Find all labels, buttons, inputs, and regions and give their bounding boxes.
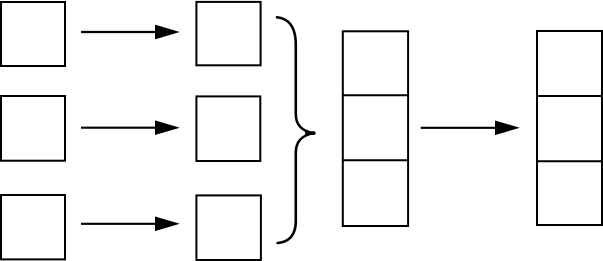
- input box row3 left: [1, 195, 65, 259]
- arrow row2: [81, 120, 180, 135]
- output box row2 middle column: [196, 96, 260, 161]
- stacked vector middle: [343, 31, 408, 226]
- input box row1 left: [1, 2, 65, 66]
- stacked vector right: [537, 31, 602, 225]
- curly brace: [277, 17, 314, 243]
- output box row3 middle column: [196, 195, 261, 260]
- arrow row1: [81, 25, 180, 40]
- arrow row3: [81, 216, 180, 231]
- output box row1 middle column: [196, 2, 260, 65]
- input box row2 left: [1, 96, 65, 161]
- arrow middle: [421, 120, 520, 135]
